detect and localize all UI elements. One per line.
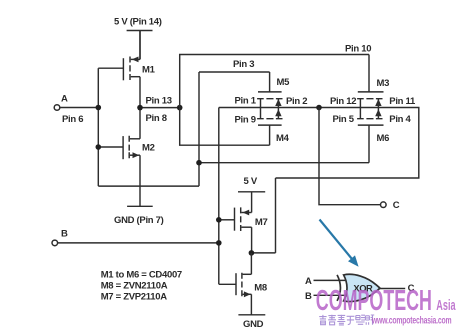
watermark chinese characters — [319, 315, 374, 325]
svg-text:M1 to M6 = CD4007: M1 to M6 = CD4007 — [101, 270, 182, 281]
wire TG mid rail to right loop — [219, 108, 419, 179]
node C tap — [316, 105, 322, 111]
transmission gate TG1: transistor M5 (PMOS) — [257, 72, 282, 99]
node A-M2 gate junction — [96, 144, 102, 150]
svg-text:M4: M4 — [276, 133, 290, 144]
svg-text:A: A — [305, 276, 312, 287]
svg-text:Pin 4: Pin 4 — [389, 114, 411, 125]
svg-text:C: C — [393, 200, 400, 211]
wire B vertical to TG1 and M7/M8 gates — [219, 108, 236, 285]
xor extra input arc — [337, 275, 340, 301]
input terminal A — [54, 105, 60, 111]
XOR gate symbol — [314, 274, 406, 301]
node Abar branch — [177, 105, 183, 111]
svg-text:M7 = ZVP2110A: M7 = ZVP2110A — [101, 291, 168, 302]
svg-text:5 V: 5 V — [244, 176, 258, 187]
svg-text:www.compotechasia.com: www.compotechasia.com — [371, 314, 452, 326]
TG2 terminals — [360, 99, 381, 119]
watermark COMPOTECH — [316, 285, 456, 318]
svg-text:Pin 11: Pin 11 — [389, 96, 416, 107]
svg-text:Pin 8: Pin 8 — [146, 113, 167, 124]
svg-text:GND (Pin 7): GND (Pin 7) — [114, 215, 164, 226]
svg-text:Pin 6: Pin 6 — [62, 114, 83, 125]
transistor M2 (NMOS) — [123, 108, 140, 207]
xor input wire A — [314, 279, 347, 281]
ground symbol GND (Pin 7) — [127, 205, 153, 207]
node M7-M8 drains — [249, 250, 255, 256]
wire inverter output Abar node — [140, 107, 180, 109]
xor input wire B — [314, 294, 348, 296]
wire inverter B output node — [251, 252, 275, 254]
node M1-M2 drains — [137, 105, 143, 111]
xor gate body — [344, 274, 380, 301]
wire B input — [58, 242, 219, 244]
transistor M8 (NMOS) — [236, 253, 251, 315]
xor output wire — [380, 288, 406, 290]
5V supply rail for M7 — [238, 192, 265, 213]
input terminal B — [52, 240, 58, 246]
svg-text:Pin 9: Pin 9 — [235, 114, 256, 125]
transmission gate TG1: transistor M4 (NMOS) — [257, 119, 282, 146]
wire Bbar riser — [275, 178, 277, 253]
wire A input to gates — [60, 68, 124, 186]
svg-text:GND: GND — [243, 319, 264, 330]
svg-text:5 V (Pin 14): 5 V (Pin 14) — [114, 17, 162, 28]
output terminal C — [381, 202, 387, 208]
5V supply rail (Pin 14) — [127, 31, 153, 60]
wire Abar to M4 gate — [180, 108, 270, 146]
transistor M1 (PMOS) — [123, 31, 140, 108]
output wire to terminal C — [319, 108, 380, 205]
svg-text:B: B — [61, 228, 68, 239]
svg-text:M8: M8 — [254, 282, 267, 293]
blue annotation arrow — [320, 220, 359, 267]
ground symbol GND (M8) — [238, 314, 265, 316]
TG1 terminals — [261, 99, 282, 119]
svg-text:Pin 10: Pin 10 — [345, 44, 371, 55]
wire A to M5/M6 gates (Pin 3 route) — [98, 72, 369, 186]
svg-text:Pin 3: Pin 3 — [233, 59, 254, 70]
svg-text:Pin 12: Pin 12 — [330, 96, 356, 107]
svg-text:M2: M2 — [142, 143, 155, 154]
svg-text:A: A — [61, 94, 68, 105]
svg-text:COMPOTECH: COMPOTECH — [316, 285, 432, 318]
transistor M7 (PMOS) — [235, 207, 252, 253]
svg-text:Pin 13: Pin 13 — [146, 96, 172, 107]
node B-M7 gate junction — [216, 217, 222, 223]
svg-text:M1: M1 — [142, 65, 156, 76]
svg-text:Pin 2: Pin 2 — [286, 96, 307, 107]
svg-text:M5: M5 — [277, 77, 291, 88]
wire Abar to M3 gate (Pin 10 route) — [180, 55, 369, 108]
node A route junction — [196, 160, 202, 166]
svg-text:M3: M3 — [377, 78, 390, 89]
svg-text:M7: M7 — [255, 217, 268, 228]
svg-text:Pin 5: Pin 5 — [333, 114, 355, 125]
svg-text:M8 = ZVN2110A: M8 = ZVN2110A — [101, 281, 168, 292]
svg-text:M6: M6 — [377, 133, 390, 144]
svg-text:B: B — [305, 291, 312, 302]
node B input junction — [216, 240, 222, 246]
transmission gate TG2: transistor M3 (PMOS) — [357, 55, 383, 99]
parts list note — [101, 270, 182, 303]
transmission gate TG2: transistor M6 (NMOS) — [357, 119, 383, 163]
svg-text:Pin 1: Pin 1 — [235, 96, 257, 107]
node A-M1 gate junction — [96, 105, 102, 111]
svg-text:Asia: Asia — [436, 297, 455, 314]
